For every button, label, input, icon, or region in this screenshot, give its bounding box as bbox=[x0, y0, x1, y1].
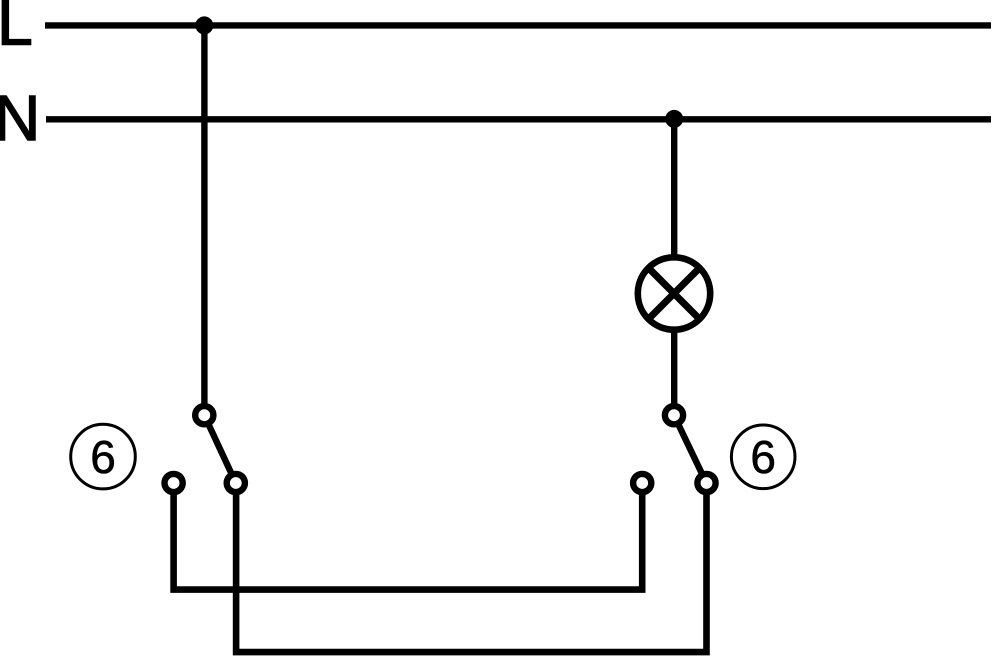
svg-text:6: 6 bbox=[750, 431, 776, 483]
wire N line bbox=[46, 116, 991, 122]
switch S2 pivot terminal bbox=[665, 406, 683, 424]
label circle 6 left bbox=[71, 424, 136, 489]
wire traveller upper: left switch left contact to right switch left contact bbox=[174, 483, 643, 590]
lamp E1 bbox=[638, 257, 710, 329]
switch S1 left contact terminal bbox=[165, 474, 183, 492]
junction dot on L bbox=[195, 16, 213, 34]
switch S1 right contact terminal bbox=[227, 474, 245, 492]
wire from N down through lamp to right switch pivot bbox=[671, 119, 677, 415]
svg-text:6: 6 bbox=[90, 431, 116, 483]
switch S2 left contact terminal bbox=[633, 474, 651, 492]
junction dot on N bbox=[665, 110, 683, 128]
wire L line bbox=[45, 22, 991, 28]
wire from L down to left switch pivot bbox=[201, 25, 207, 415]
wire traveller lower: left switch right contact to right switch right contact bbox=[236, 483, 706, 652]
label circle 6 right bbox=[731, 425, 795, 489]
svg-text:N: N bbox=[0, 82, 40, 154]
switch S1 lever bbox=[204, 415, 236, 483]
switch S1 pivot terminal bbox=[195, 406, 213, 424]
svg-text:L: L bbox=[0, 0, 33, 59]
switch S2 lever bbox=[674, 415, 706, 483]
switch S2 right contact terminal bbox=[697, 474, 715, 492]
